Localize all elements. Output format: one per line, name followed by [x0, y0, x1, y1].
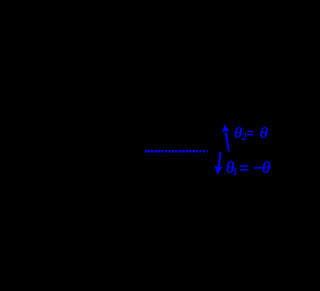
svg-text:θ: θ [262, 158, 271, 177]
node label theta2 = theta [234, 125, 269, 143]
wire: dashed horizontal axis double arrow [144, 150, 208, 154]
svg-text:1: 1 [232, 166, 238, 178]
node left arrowhead [144, 150, 147, 154]
node label theta1 = -theta [226, 158, 271, 178]
node right arrowhead [207, 150, 209, 153]
node up arrow (spin up, theta2) [222, 124, 229, 152]
svg-text:θ: θ [260, 125, 269, 142]
svg-text:2: 2 [241, 132, 247, 143]
node down arrow (spin down, theta1) [215, 152, 222, 175]
